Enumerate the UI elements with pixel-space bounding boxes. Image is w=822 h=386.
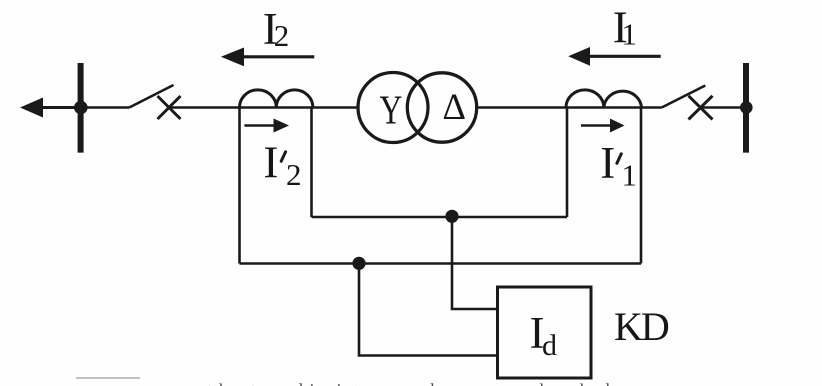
transformer T1 winding Y (star): [358, 73, 428, 143]
svg-text:Y: Y: [380, 86, 403, 132]
arrow I1 (primary current, right, pointing left): [585, 55, 661, 58]
transformer T1 winding delta: [407, 73, 476, 142]
wire: right CT secondary outer drop (x=641): [640, 108, 643, 264]
arrow I2 (primary current, left, pointing left): [240, 55, 314, 58]
node: junction dot on right bus: [740, 101, 753, 114]
relay KD box: [498, 287, 592, 378]
node: junction dot on left bus: [74, 101, 88, 115]
node: junction dot on inner link: [445, 210, 458, 223]
circuit breaker Q1 (right disconnect blade with X mark): [662, 86, 706, 108]
svg-text:KD: KD: [614, 304, 669, 349]
bus A (left busbar): [78, 63, 84, 153]
arrow I'2 (secondary current, left, pointing right): [244, 124, 275, 127]
svg-text:I: I: [600, 138, 615, 188]
bus B (right busbar): [743, 63, 749, 153]
label Y: [380, 86, 403, 132]
circuit breaker Q2 (left disconnect blade with X mark): [129, 85, 173, 108]
node: junction dot on outer link: [352, 257, 365, 270]
wire: breaker to right bus: [700, 106, 746, 109]
current transformer CT2 (left, primary humps): [240, 90, 313, 108]
wire: left bus to breaker: [84, 106, 129, 109]
wire: left CT secondary inner drop (x=311.5): [310, 108, 313, 218]
svg-text:1: 1: [622, 17, 638, 52]
wire: transformer to right CT: [477, 106, 642, 109]
svg-text:Δ: Δ: [443, 86, 466, 127]
wire: left feeder lead with arrow to left bus: [40, 106, 81, 109]
wire: breaker to left CT: [169, 106, 313, 109]
wire: right CT to breaker: [641, 106, 662, 109]
faint clipped caption strip at the very bottom: [76, 377, 140, 379]
current transformer CT1 (right, primary humps): [566, 90, 642, 108]
wire: left CT to transformer: [312, 106, 358, 109]
wire: outer secondary horizontal link: [240, 262, 642, 265]
wire: right CT secondary inner drop (x=567): [566, 108, 569, 218]
arrow I'1 (secondary current, right, pointing right): [581, 124, 611, 127]
wire: inner junction to relay input 1: [452, 217, 498, 310]
svg-text:2: 2: [274, 18, 290, 53]
svg-text:1: 1: [622, 158, 638, 193]
wire: inner secondary horizontal link: [312, 216, 568, 219]
wire: outer junction to relay input 2: [359, 264, 498, 356]
svg-text:d: d: [542, 329, 557, 362]
svg-text:2: 2: [286, 157, 302, 192]
svg-text:I: I: [263, 138, 278, 188]
wire: left CT secondary outer drop (x=239.5): [238, 108, 241, 264]
